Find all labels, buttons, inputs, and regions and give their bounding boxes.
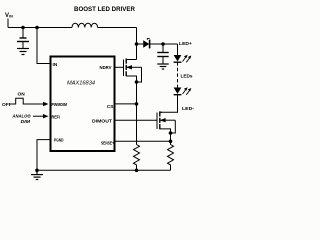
junction dot IN branch — [35, 26, 39, 30]
wire VIN riser — [7, 19, 9, 28]
IC U1 MAX16834 — [51, 57, 115, 152]
wire Q1 source to R1 — [136, 82, 138, 145]
transistor Q1 — [124, 59, 142, 83]
svg-text:SENSE+: SENSE+ — [101, 141, 114, 147]
svg-text:NDRV: NDRV — [100, 65, 113, 71]
transistor Q2 — [157, 111, 175, 133]
wire Q2 source down — [170, 133, 172, 145]
svg-text:REFI: REFI — [52, 115, 61, 121]
wire LED- to Q2 drain — [160, 95, 178, 113]
svg-text:BOOST LED DRIVER: BOOST LED DRIVER — [74, 6, 135, 13]
wire IN pin — [37, 28, 51, 64]
junction dot Q2 source — [169, 131, 173, 135]
svg-text:ON: ON — [18, 92, 26, 98]
svg-text:CS: CS — [107, 104, 114, 110]
wire dashed LED string — [177, 62, 179, 87]
svg-text:ANALOG: ANALOG — [12, 114, 31, 120]
svg-text:MAX16834: MAX16834 — [67, 81, 95, 87]
LED D3 — [174, 87, 192, 95]
arrow to PWMDIM — [27, 102, 49, 106]
wire top rail — [8, 27, 72, 29]
ground PGND — [31, 170, 43, 179]
wire LED+ — [163, 43, 178, 45]
svg-text:IN: IN — [53, 62, 58, 68]
inductor L1 — [72, 23, 98, 27]
junction dot PGND ground — [35, 169, 39, 173]
ground output cap — [157, 64, 168, 69]
arrow to REFI — [33, 114, 49, 118]
svg-text:DIMOUT: DIMOUT — [92, 119, 112, 125]
resistor R1 — [134, 145, 140, 171]
junction dot output cap — [161, 42, 165, 46]
capacitor C2 — [157, 44, 168, 64]
capacitor C1 — [17, 28, 29, 49]
LED D2 — [174, 55, 192, 63]
junction dot diode anode — [135, 42, 139, 46]
wire CS — [115, 103, 137, 105]
junction dot input cap — [21, 26, 25, 30]
wire rail to switch node — [98, 27, 137, 29]
wire LED string top — [177, 44, 179, 55]
svg-text:LED+: LED+ — [179, 41, 192, 47]
junction dot CS — [135, 102, 139, 106]
wire NDRV to gate — [115, 66, 124, 68]
svg-text:PGND: PGND — [54, 138, 64, 144]
svg-text:LED-: LED- — [182, 106, 194, 112]
junction dot SNS+ — [169, 140, 173, 144]
svg-text:DIM: DIM — [21, 119, 31, 125]
svg-text:LEDs: LEDs — [181, 74, 193, 80]
junction dot Q1 source — [135, 80, 139, 84]
wire SNS+ — [115, 140, 171, 142]
wire switch node vertical — [136, 28, 138, 60]
wire DIMOUT to Q2 gate — [115, 119, 158, 121]
wire PGND — [37, 140, 51, 171]
diode D1 — [137, 38, 164, 48]
junction dot R1 bottom — [135, 169, 139, 173]
resistor R2 — [168, 145, 174, 171]
svg-text:OFF: OFF — [2, 102, 12, 108]
waveform PWM pulse — [12, 98, 27, 104]
ground input cap — [17, 49, 29, 55]
svg-text:PWMDIM: PWMDIM — [52, 102, 68, 108]
svg-text:VIN: VIN — [5, 13, 13, 19]
wire bottom rail — [37, 169, 171, 171]
